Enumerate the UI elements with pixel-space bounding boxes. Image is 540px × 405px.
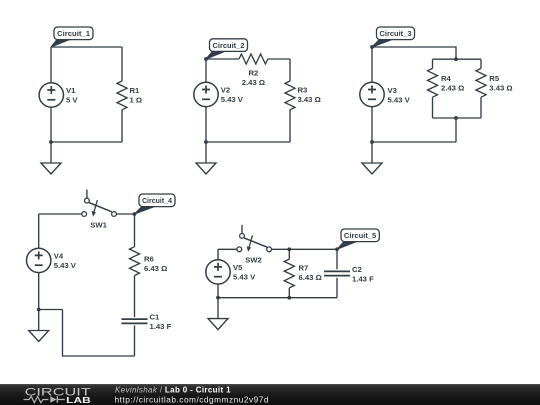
svg-text:6.43 Ω: 6.43 Ω — [144, 264, 167, 273]
svg-text:1 Ω: 1 Ω — [130, 96, 143, 105]
svg-text:R2: R2 — [248, 69, 258, 78]
svg-text:2.43 Ω: 2.43 Ω — [441, 84, 464, 93]
svg-text:C2: C2 — [352, 265, 362, 274]
svg-text:Kevinlshak / Lab 0 - Circuit 1: Kevinlshak / Lab 0 - Circuit 1 — [115, 386, 231, 395]
svg-text:1.43 F: 1.43 F — [352, 275, 374, 284]
svg-text:3.43 Ω: 3.43 Ω — [489, 84, 512, 93]
svg-text:5.43 V: 5.43 V — [388, 96, 411, 105]
svg-text:V4: V4 — [54, 252, 64, 261]
svg-text:R7: R7 — [299, 264, 309, 273]
svg-text:5.43 V: 5.43 V — [221, 95, 244, 104]
svg-text:R1: R1 — [130, 86, 141, 95]
svg-text:1.43 F: 1.43 F — [150, 322, 172, 331]
svg-text:6.43 Ω: 6.43 Ω — [299, 273, 322, 282]
svg-text:3.43 Ω: 3.43 Ω — [298, 95, 321, 104]
svg-text:SW1: SW1 — [90, 220, 107, 229]
svg-text:5.43 V: 5.43 V — [54, 261, 77, 270]
svg-text:http://circuitlab.com/cdgmmznu: http://circuitlab.com/cdgmmznu2v97d — [115, 394, 269, 404]
svg-text:Circuit_3: Circuit_3 — [380, 29, 412, 38]
svg-text:Circuit_2: Circuit_2 — [213, 41, 245, 50]
svg-text:V1: V1 — [66, 86, 76, 95]
svg-text:SW2: SW2 — [245, 255, 262, 264]
svg-text:R4: R4 — [441, 74, 452, 83]
svg-text:R5: R5 — [489, 74, 500, 83]
svg-text:LAB: LAB — [66, 395, 91, 405]
svg-text:V2: V2 — [221, 86, 230, 95]
svg-text:V3: V3 — [388, 86, 397, 95]
svg-text:R6: R6 — [144, 254, 154, 263]
svg-text:Circuit_4: Circuit_4 — [142, 196, 173, 205]
svg-text:5 V: 5 V — [66, 96, 78, 105]
svg-text:2.43 Ω: 2.43 Ω — [242, 78, 265, 87]
svg-text:Circuit_5: Circuit_5 — [344, 231, 376, 240]
svg-text:C1: C1 — [150, 313, 161, 322]
svg-text:V5: V5 — [233, 263, 243, 272]
svg-text:5.43 V: 5.43 V — [233, 273, 256, 282]
svg-text:Circuit_1: Circuit_1 — [57, 29, 90, 38]
svg-text:R3: R3 — [298, 86, 308, 95]
